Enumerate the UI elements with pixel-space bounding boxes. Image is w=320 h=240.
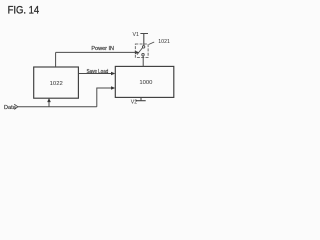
node Data input terminal chevron [14, 104, 18, 109]
terminal V2 [136, 97, 146, 100]
svg-text:Data: Data [4, 105, 17, 111]
wire switch to block 1000 [142, 56, 144, 67]
leader line for 1021 [149, 42, 154, 44]
wire Data horizontal [18, 106, 97, 108]
wire Power IN riser from block 1022 [55, 52, 57, 67]
block 1022 [34, 67, 79, 98]
svg-text:Save Load: Save Load [87, 69, 109, 75]
svg-text:V1: V1 [133, 32, 139, 38]
wire Data branch riser into 1022 [48, 100, 50, 107]
svg-text:V2: V2 [131, 99, 137, 105]
switch 1021 dashed enclosure [135, 44, 148, 57]
wire Data riser to 1000 [97, 88, 113, 107]
svg-text:1000: 1000 [139, 80, 153, 86]
svg-text:FIG. 14: FIG. 14 [8, 4, 40, 16]
block 1000 [115, 66, 174, 97]
switch arm [137, 48, 143, 55]
svg-text:Power IN: Power IN [91, 46, 114, 52]
svg-text:1022: 1022 [50, 81, 63, 87]
terminal V1 [140, 34, 148, 46]
wire Save Load from 1022 to 1000 [78, 73, 113, 75]
arrowhead Data into 1000 [111, 86, 115, 90]
arrowhead Data into 1022 [47, 98, 51, 102]
arrowhead Save Load into 1000 [111, 72, 115, 76]
switch contact top [142, 46, 144, 48]
switch contact bottom [142, 54, 144, 56]
arrowhead Power IN into switch [135, 51, 139, 55]
wire Power IN horizontal [56, 51, 136, 53]
svg-text:1021: 1021 [158, 39, 170, 45]
